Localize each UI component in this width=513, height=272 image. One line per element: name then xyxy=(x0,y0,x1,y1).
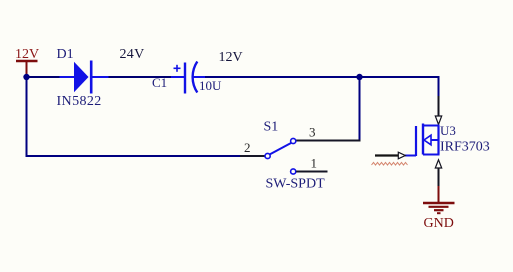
svg-text:24V: 24V xyxy=(120,47,145,62)
svg-text:IN5822: IN5822 xyxy=(57,94,102,109)
svg-text:10U: 10U xyxy=(199,78,222,93)
wire bottom run to switch xyxy=(26,155,241,157)
svg-text:IRF3703: IRF3703 xyxy=(440,140,490,155)
wire pin3 horizontal xyxy=(296,140,361,142)
label GND xyxy=(424,216,454,231)
label IN5822 xyxy=(57,94,102,109)
junction dot left xyxy=(23,74,29,80)
svg-text:GND: GND xyxy=(424,216,454,231)
label S1 xyxy=(264,120,279,135)
wire drain drop vertical xyxy=(438,96,440,116)
switch S1 xyxy=(240,138,328,174)
svg-text:3: 3 xyxy=(309,125,316,140)
svg-text:12V: 12V xyxy=(15,47,39,62)
svg-text:12V: 12V xyxy=(219,50,243,65)
svg-text:U3: U3 xyxy=(440,123,456,138)
no-ERC squiggle marker xyxy=(372,162,408,165)
label C1 xyxy=(152,75,167,90)
junction dot right xyxy=(356,74,362,80)
wire gate stub xyxy=(375,154,398,156)
svg-text:C1: C1 xyxy=(152,75,167,90)
svg-text:SW-SPDT: SW-SPDT xyxy=(266,177,326,192)
wire top rail left segment xyxy=(27,76,61,78)
power port 12V xyxy=(15,47,39,74)
pin arrow gate xyxy=(398,152,405,159)
ground GND xyxy=(423,186,455,213)
wire top rail diode-to-cap segment xyxy=(108,76,171,78)
wire switch pin3 branch vertical xyxy=(359,77,361,142)
pin number 2 xyxy=(244,140,251,155)
pin arrow drain xyxy=(435,116,441,125)
label 10U xyxy=(199,78,222,93)
label SW-SPDT xyxy=(266,177,326,192)
net label 24V xyxy=(120,47,145,62)
wire source drop xyxy=(438,168,440,189)
pin arrow source xyxy=(435,160,441,168)
svg-text:2: 2 xyxy=(244,140,251,155)
wire left branch vertical xyxy=(26,77,28,156)
label IRF3703 xyxy=(440,140,490,155)
label D1 xyxy=(57,47,74,62)
pin number 1 xyxy=(311,156,318,171)
label U3 xyxy=(440,123,456,138)
pin number 3 xyxy=(309,125,316,140)
svg-text:1: 1 xyxy=(311,156,318,171)
wire top rail cap-to-junction segment xyxy=(204,76,360,78)
capacitor C1 xyxy=(171,62,205,94)
svg-text:D1: D1 xyxy=(57,47,74,62)
svg-text:S1: S1 xyxy=(264,120,279,135)
diode D1 xyxy=(60,61,109,94)
mosfet U3 xyxy=(405,124,440,157)
wire top rail junction-to-drain segment xyxy=(358,77,439,96)
net label 12V xyxy=(219,50,243,65)
